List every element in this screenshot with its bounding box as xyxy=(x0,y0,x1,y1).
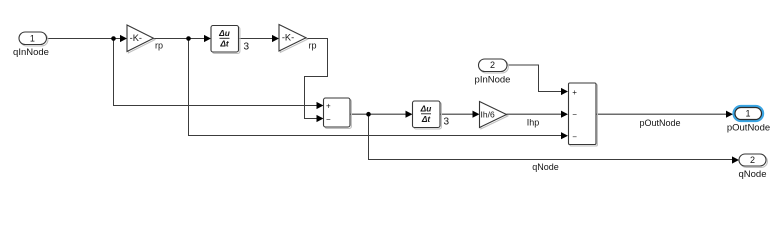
svg-text:-K-: -K- xyxy=(282,33,294,43)
svg-text:pInNode: pInNode xyxy=(475,75,511,86)
svg-text:pOutNode: pOutNode xyxy=(639,118,680,128)
svg-text:2: 2 xyxy=(750,155,755,165)
svg-text:+: + xyxy=(572,88,577,97)
svg-text:Δu: Δu xyxy=(420,104,432,114)
svg-text:−: − xyxy=(326,115,331,124)
svg-text:−: − xyxy=(572,132,577,141)
svg-text:Ih/6: Ih/6 xyxy=(481,109,495,119)
svg-text:pOutNode: pOutNode xyxy=(727,123,770,134)
svg-text:Ihp: Ihp xyxy=(527,118,540,128)
svg-text:3: 3 xyxy=(444,117,450,128)
svg-text:3: 3 xyxy=(244,41,250,52)
svg-text:+: + xyxy=(326,102,331,111)
svg-text:1: 1 xyxy=(745,109,750,119)
svg-text:rp: rp xyxy=(308,41,316,51)
svg-text:-K-: -K- xyxy=(130,33,142,43)
svg-text:2: 2 xyxy=(490,60,495,70)
svg-text:1: 1 xyxy=(30,33,35,43)
svg-text:−: − xyxy=(572,110,577,119)
svg-text:qNode: qNode xyxy=(739,169,767,180)
svg-text:rp: rp xyxy=(155,41,163,51)
svg-text:qInNode: qInNode xyxy=(13,47,49,58)
svg-text:Δt: Δt xyxy=(421,114,432,124)
svg-text:Δu: Δu xyxy=(218,28,230,38)
svg-text:Δt: Δt xyxy=(219,38,230,48)
svg-text:qNode: qNode xyxy=(532,162,559,172)
